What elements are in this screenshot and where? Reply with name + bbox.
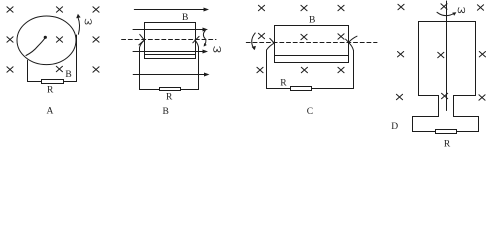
left brush contact (figure B) (139, 34, 144, 45)
field arrow 2 (133, 29, 204, 31)
left brush contact (figure C) (270, 38, 275, 43)
right brush contact (figure C) (346, 39, 349, 42)
field arrow 4 (133, 74, 205, 76)
omega label (figure A) (85, 19, 91, 24)
figure A: field B crosses (into page) (7, 7, 99, 72)
right rotation arc (figure C) (349, 36, 357, 42)
rotation arrow omega (figure D) (437, 12, 454, 15)
svg-text:B: B (309, 15, 315, 25)
rotation axis (dashed, figure C) (246, 42, 377, 44)
coil rectangle (figure C) (275, 26, 349, 63)
coil inner bottom line (figure C) (275, 55, 349, 57)
svg-text:R: R (444, 139, 451, 148)
left rotation arc (figure C) (252, 33, 255, 49)
field arrow 3 (133, 51, 204, 53)
bottom wire (figure B) (140, 89, 199, 91)
omega label (figure B) (214, 47, 221, 52)
resistor R (figure A) (42, 80, 64, 84)
right lead wire (figure D) (453, 96, 455, 117)
resistor R (figure B) (160, 88, 181, 91)
coil rectangle with split bottom (figure D) (419, 22, 476, 96)
figure B: field arrow 1 (134, 9, 205, 11)
omega label (figure D) (458, 8, 465, 13)
svg-text:D: D (391, 122, 398, 132)
coil rectangle (figure B) (145, 23, 196, 59)
svg-text:B: B (163, 107, 169, 117)
svg-text:B: B (65, 70, 71, 80)
resistor R (figure D) (436, 130, 457, 134)
rotation arrow omega (figure B) (203, 31, 205, 45)
rotating disc (figure A) (17, 16, 76, 65)
svg-text:R: R (280, 78, 287, 88)
rotation axle (figure D) (446, 1, 448, 111)
left lead wire down to loop (140, 40, 145, 89)
svg-text:B: B (182, 13, 188, 23)
figure C: field B crosses (into page) (257, 5, 344, 72)
svg-text:R: R (166, 93, 173, 103)
left lead wire (figure D) (438, 96, 440, 117)
svg-text:C: C (307, 107, 313, 117)
rotation axis (dashed, figure B) (122, 39, 216, 41)
resistor R (figure C) (291, 87, 312, 91)
svg-text:R: R (47, 86, 54, 96)
right wire from disc to resistor (76, 35, 78, 82)
left wire from disc to resistor (27, 60, 29, 81)
disc radius pointer with centre dot (26, 39, 45, 56)
svg-text:A: A (47, 106, 54, 116)
figure D: field B crosses (into page) (396, 4, 485, 100)
bottom wire (figure A) (28, 81, 77, 83)
lower loop (figure D) (413, 117, 479, 132)
right lead wire down to loop (195, 40, 199, 90)
bottom wire (figure C) (267, 88, 354, 90)
left loop wire (figure C) (266, 50, 268, 89)
right lead wire down to loop (349, 43, 354, 51)
left lead wire down to loop (267, 43, 275, 50)
coil inner bottom line (figure B) (145, 54, 196, 56)
right loop wire (figure C) (353, 51, 355, 89)
rotation arrow omega (figure A) (78, 17, 80, 34)
right brush contact (figure B) (193, 36, 199, 42)
